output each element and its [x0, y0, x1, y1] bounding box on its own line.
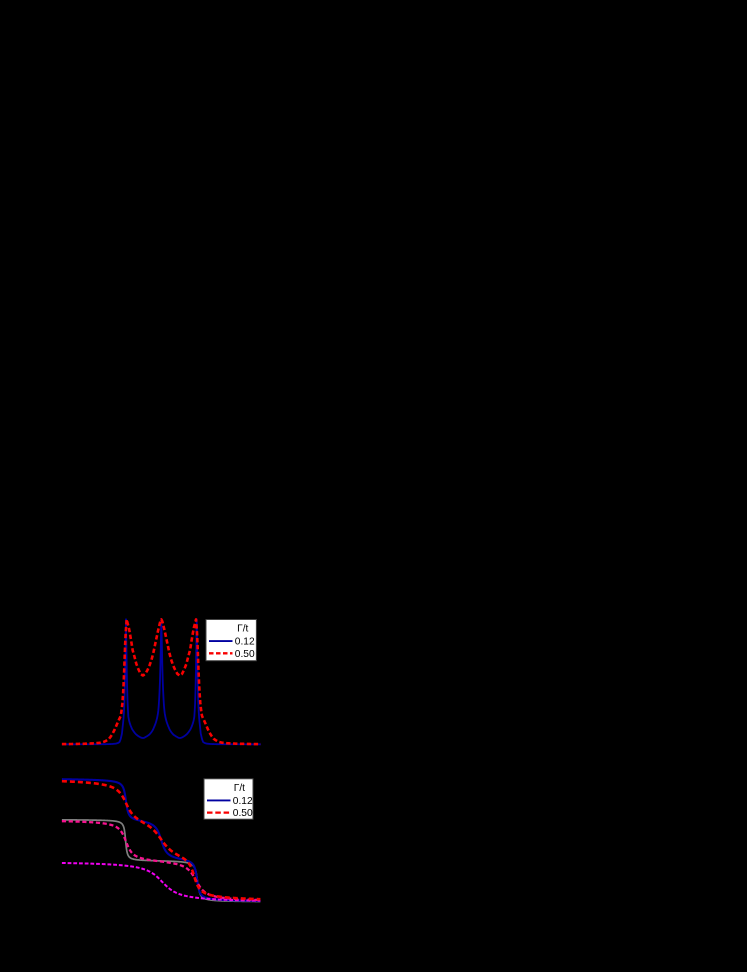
- svg-text:0.12: 0.12: [235, 637, 255, 648]
- svg-text:0.50: 0.50: [235, 649, 255, 660]
- svg-text:0.12: 0.12: [233, 796, 253, 807]
- svg-text:Γ/t: Γ/t: [237, 624, 248, 635]
- svg-text:0.50: 0.50: [233, 808, 253, 819]
- svg-text:Γ/t: Γ/t: [234, 783, 245, 794]
